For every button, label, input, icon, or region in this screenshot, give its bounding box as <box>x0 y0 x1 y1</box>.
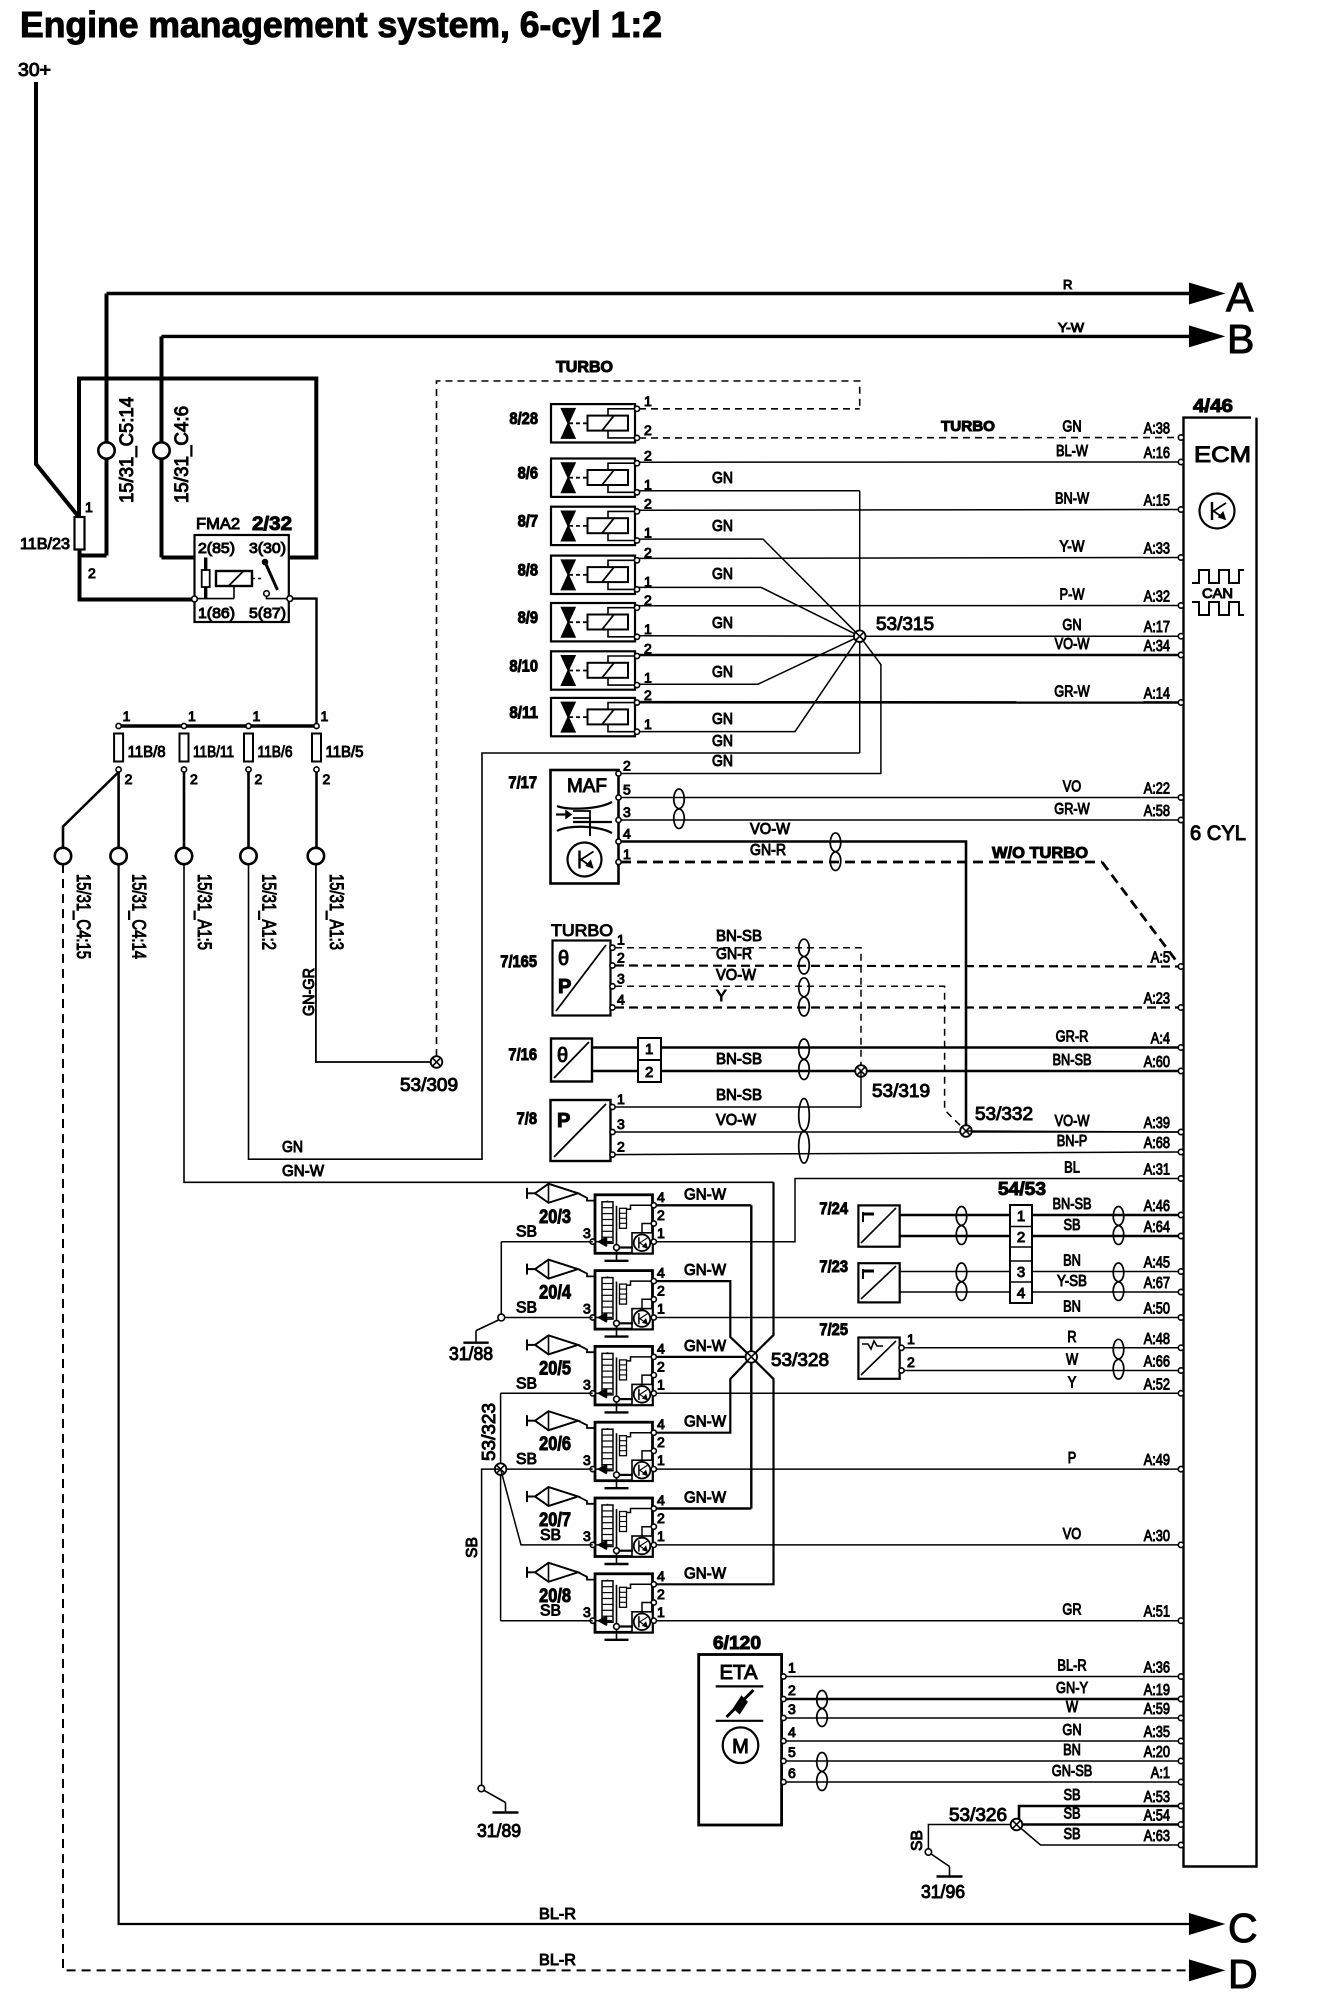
svg-text:D: D <box>1228 1951 1258 1997</box>
svg-text:A:45: A:45 <box>1144 1255 1170 1272</box>
wire SB node 53/326 to ECM A:63 <box>1017 1825 1182 1846</box>
svg-text:1: 1 <box>657 1452 665 1468</box>
svg-text:53/328: 53/328 <box>771 1350 829 1370</box>
svg-text:SB: SB <box>1063 1787 1080 1804</box>
sensor 7/25 knock <box>858 1338 899 1379</box>
wire injector 8/11 pin 2 GR-W to ECM A:14 <box>639 701 1181 704</box>
svg-text:W/O TURBO: W/O TURBO <box>992 845 1088 862</box>
svg-text:20/3: 20/3 <box>539 1207 571 1228</box>
wire 54/53 pin 3 BN to ECM A:45 <box>1032 1271 1181 1273</box>
svg-text:3: 3 <box>788 1701 796 1717</box>
svg-text:TURBO: TURBO <box>941 418 995 435</box>
svg-text:3: 3 <box>583 1376 591 1392</box>
twisted pair ETA 2/3 <box>817 1691 828 1727</box>
connector 15/31_A1:3 <box>308 848 324 864</box>
injector 8/10 <box>551 651 635 689</box>
svg-text:BL-R: BL-R <box>539 1952 576 1969</box>
pin A:34 of ECM <box>1178 652 1183 657</box>
svg-text:GN: GN <box>712 711 733 728</box>
svg-text:GN: GN <box>712 518 733 535</box>
wire 7/165 pin 4 Y dashed to ECM A:23 <box>615 1006 1181 1008</box>
pin A:39 of ECM <box>1178 1129 1183 1134</box>
svg-text:SB: SB <box>909 1830 926 1851</box>
injector 8/7 <box>551 507 635 545</box>
svg-text:53/315: 53/315 <box>876 614 934 634</box>
svg-text:2: 2 <box>1017 1229 1025 1246</box>
svg-text:GR-W: GR-W <box>1054 801 1090 818</box>
svg-text:A:14: A:14 <box>1144 686 1170 703</box>
wire 20/8 pin 1 GR to ECM A:51 <box>656 1620 1181 1622</box>
twisted pair 7/23 <box>956 1263 967 1301</box>
svg-text:GN-W: GN-W <box>684 1186 727 1203</box>
wire GN-W feed from 11B/11 <box>184 864 774 1182</box>
svg-text:A:32: A:32 <box>1144 589 1170 606</box>
fuse 11B/8 <box>116 723 121 728</box>
pin A:53 of ECM <box>1178 1803 1183 1808</box>
wire injector 8/28 pin 1 TURBO dashed <box>639 408 860 410</box>
node 53/332 <box>960 1125 972 1137</box>
wire 20/7 pin 1 VO to ECM A:30 <box>656 1544 1181 1546</box>
wire injector 8/9 pin 2 P-W to ECM A:32 <box>639 605 1181 607</box>
svg-text:A: A <box>1226 274 1254 320</box>
svg-text:2: 2 <box>323 771 331 787</box>
wire ETA pin 6 GN-SB to ECM A:1 <box>786 1781 1181 1783</box>
pin A:16 of ECM <box>1178 459 1183 464</box>
twisted pair A:46/A:64 <box>1113 1207 1124 1245</box>
svg-text:11B/5: 11B/5 <box>326 744 364 761</box>
pins of coil 20/4 <box>651 1279 656 1284</box>
svg-text:7/8: 7/8 <box>517 1109 537 1128</box>
svg-text:11B/23: 11B/23 <box>20 536 70 553</box>
svg-text:1(86): 1(86) <box>198 605 235 622</box>
fuse 11B/23 <box>75 517 85 550</box>
wire 7/16 pin 2 BN-SB to ECM A:60 <box>661 1070 1181 1073</box>
wire SB node 53/323 to ground 31/89 <box>482 1469 501 1785</box>
svg-text:GN-SB: GN-SB <box>1052 1763 1093 1780</box>
wire GN-W 20/8 pin 4 <box>656 1357 774 1584</box>
relay coil <box>216 571 252 586</box>
wire ETA pin 4 GN to ECM A:35 <box>786 1740 1181 1742</box>
injector 8/11 <box>551 698 635 736</box>
svg-text:31/96: 31/96 <box>921 1882 965 1902</box>
wire GN-W 20/3 pin 4 to node 53/328 <box>656 1204 751 1206</box>
pin A:38 of ECM <box>1178 435 1183 440</box>
wire fuse 11B/8 to 15/31_C4:15 <box>63 772 119 848</box>
wire 7/8 pin 2 BN-P to ECM A:68 <box>615 1152 1181 1155</box>
injector 8/6 <box>551 459 635 497</box>
ground 31/96 <box>925 1849 931 1855</box>
svg-text:A:22: A:22 <box>1144 781 1170 798</box>
pin A:14 of ECM <box>1178 700 1183 705</box>
pin A:17 of ECM <box>1178 634 1183 639</box>
wire 20/5 pin 1 Y to ECM A:52 <box>656 1392 1181 1394</box>
svg-text:VO: VO <box>1063 1526 1082 1543</box>
ground rail of coil 20/4 <box>614 1320 620 1326</box>
wire SB ECM A:53 to node 53/326 <box>1019 1806 1181 1825</box>
wire injector 8/7 pin 2 BN-W to ECM A:15 <box>639 509 1181 512</box>
svg-text:8/9: 8/9 <box>518 608 538 627</box>
wire node 53/332 to ECM A:39 VO-W <box>966 1131 1181 1132</box>
pin A:30 of ECM <box>1178 1542 1183 1547</box>
ignition coil 20/8 <box>595 1574 653 1633</box>
motor M symbol <box>723 1727 759 1763</box>
svg-text:2: 2 <box>645 1064 653 1081</box>
pins of coil 20/3 <box>651 1203 656 1208</box>
svg-text:31/88: 31/88 <box>449 1344 493 1364</box>
svg-text:1: 1 <box>644 621 652 637</box>
pin A:46 of ECM <box>1178 1212 1183 1217</box>
wire fuse 11B/11 pin 2 <box>183 772 186 848</box>
svg-text:A:51: A:51 <box>1144 1604 1170 1621</box>
svg-text:3: 3 <box>583 1604 591 1620</box>
svg-text:VO-W: VO-W <box>716 1112 757 1129</box>
svg-text:A:4: A:4 <box>1151 1031 1170 1048</box>
wire 7/23 to 54/53 pins 3 4 <box>900 1271 1010 1273</box>
svg-text:GN-R: GN-R <box>750 842 786 859</box>
wire 54/53 pin 2 SB to ECM A:64 <box>1032 1235 1181 1238</box>
wire SB bus 20/3-20/4 to ground 31/88 <box>500 1242 502 1318</box>
twisted pair 7/8 <box>799 1099 810 1164</box>
spark plug of coil 20/3 <box>526 1188 528 1199</box>
pin A:67 of ECM <box>1178 1289 1183 1294</box>
svg-text:11B/8: 11B/8 <box>128 744 166 761</box>
svg-text:A:17: A:17 <box>1144 619 1170 636</box>
transistor symbol ECM <box>1200 494 1235 529</box>
throttle symbol <box>727 1690 754 1717</box>
svg-text:A:35: A:35 <box>1144 1724 1170 1741</box>
wire fuse 11B/23 to relay pin 1(86) <box>80 550 107 556</box>
svg-text:2: 2 <box>88 565 96 581</box>
node 53/326 <box>1011 1819 1023 1831</box>
svg-text:GN-W: GN-W <box>684 1490 727 1507</box>
svg-text:GN-R: GN-R <box>716 946 752 963</box>
svg-text:ECM: ECM <box>1194 442 1251 467</box>
wire fuse bus <box>119 724 317 727</box>
svg-text:11B/6: 11B/6 <box>258 744 293 761</box>
svg-text:4: 4 <box>1017 1285 1025 1302</box>
svg-text:A:38: A:38 <box>1144 421 1170 438</box>
svg-text:1: 1 <box>907 1331 915 1347</box>
svg-text:BN-P: BN-P <box>1057 1133 1088 1150</box>
svg-text:BN: BN <box>1063 1253 1081 1270</box>
svg-text:2(85): 2(85) <box>198 540 235 557</box>
pin A:66 of ECM <box>1178 1368 1183 1373</box>
svg-text:4: 4 <box>657 1189 665 1205</box>
svg-text:54/53: 54/53 <box>998 1179 1046 1199</box>
ground rail of coil 20/7 <box>614 1548 620 1554</box>
wire 7/25 pin 2 W to ECM A:66 <box>904 1370 1181 1372</box>
pin A:45 of ECM <box>1178 1269 1183 1274</box>
svg-text:A:59: A:59 <box>1144 1701 1170 1718</box>
svg-text:W: W <box>1066 1352 1079 1369</box>
pin A:36 of ECM <box>1178 1674 1183 1679</box>
svg-text:A:34: A:34 <box>1144 638 1170 655</box>
sensor 7/8 pressure <box>551 1100 611 1161</box>
sensor 7/16 coolant temperature <box>551 1039 592 1082</box>
svg-text:1: 1 <box>617 1091 625 1107</box>
svg-text:8/8: 8/8 <box>518 561 538 580</box>
relay pin 5(87) connector <box>287 596 293 602</box>
svg-text:6/120: 6/120 <box>713 1633 761 1653</box>
connector 15/31_C4:14 <box>110 848 126 864</box>
wire 7/16 to connector pins <box>592 1046 638 1049</box>
svg-text:A:63: A:63 <box>1144 1828 1170 1845</box>
wire injector 8/10 pin 1 GN <box>639 636 860 684</box>
svg-text:A:20: A:20 <box>1144 1744 1170 1761</box>
wire B (Y-W) to connector B <box>162 335 1192 338</box>
svg-text:3: 3 <box>583 1528 591 1544</box>
svg-text:GR-R: GR-R <box>1056 1029 1089 1046</box>
wire SB 20/6 pin 3 <box>501 1468 593 1470</box>
relay resistor <box>204 558 207 571</box>
wire fuse 11B/5 pin 2 <box>315 772 318 848</box>
connector 15/31_C4:15 <box>55 848 71 864</box>
wire GN-GR from 11B/5 to node 53/309 <box>316 864 433 1062</box>
svg-text:SB: SB <box>540 1603 561 1620</box>
svg-text:GN: GN <box>1062 419 1081 436</box>
svg-text:BL-R: BL-R <box>1057 1658 1086 1675</box>
svg-text:GN-W: GN-W <box>684 1565 727 1582</box>
svg-text:A:23: A:23 <box>1144 991 1170 1008</box>
wire 7/165 pin 2 GN-R dashed to ECM A:5 <box>615 966 1181 967</box>
svg-text:2: 2 <box>657 1283 665 1299</box>
pin A:68 of ECM <box>1178 1149 1183 1154</box>
wire 7/25 pin 1 R to ECM A:48 <box>904 1347 1181 1349</box>
svg-text:3(30): 3(30) <box>249 540 286 557</box>
svg-text:3: 3 <box>617 1116 625 1132</box>
svg-text:4: 4 <box>617 992 625 1008</box>
svg-text:BN-SB: BN-SB <box>716 1051 762 1068</box>
pin A:22 of ECM <box>1178 795 1183 800</box>
twisted pair 7/24 <box>956 1207 967 1245</box>
wire ETA pin 3 W to ECM A:59 <box>786 1717 1181 1719</box>
svg-text:A:1: A:1 <box>1151 1765 1170 1782</box>
wire fuse 11B/8 pin 2 <box>117 772 120 848</box>
ground 31/88 <box>476 1320 499 1331</box>
svg-text:30+: 30+ <box>18 60 51 80</box>
ignition coil 20/6 <box>595 1422 653 1481</box>
svg-text:6: 6 <box>788 1765 796 1781</box>
wire GN-W 20/5 pin 4 to node <box>656 1356 751 1358</box>
svg-text:BN: BN <box>1063 1742 1081 1759</box>
CAN symbol ECM <box>1192 570 1244 583</box>
svg-text:7/16: 7/16 <box>508 1045 537 1064</box>
pins of coil 20/7 <box>651 1506 656 1511</box>
svg-text:3: 3 <box>623 804 631 820</box>
svg-text:31/89: 31/89 <box>477 1821 521 1841</box>
svg-text:2/32: 2/32 <box>252 514 292 535</box>
svg-text:53/309: 53/309 <box>400 1075 458 1095</box>
svg-text:A:53: A:53 <box>1144 1789 1170 1806</box>
svg-text:53/323: 53/323 <box>479 1403 499 1461</box>
svg-text:8/28: 8/28 <box>509 409 538 428</box>
wire 7/8 pin 1 BN-SB to node 53/319 <box>615 1106 861 1108</box>
pin A:19 of ECM <box>1178 1696 1183 1701</box>
wire GN feed from 11B/6 <box>249 753 860 1159</box>
twisted pair 7/16 <box>799 1039 810 1080</box>
svg-text:2: 2 <box>657 1358 665 1374</box>
relay pin 1(86) connector <box>192 596 198 602</box>
svg-text:θ: θ <box>558 948 569 970</box>
wire 20/3 pin 1 BL to ECM A:31 <box>656 1179 1181 1242</box>
spark plug of coil 20/4 <box>526 1264 528 1275</box>
wire 54/53 pin 4 Y-SB to ECM A:67 <box>1032 1291 1181 1293</box>
fuse 11B/5 <box>314 723 319 728</box>
ignition coil 20/5 <box>595 1346 653 1405</box>
svg-text:GN: GN <box>282 1139 303 1156</box>
spark plug of coil 20/6 <box>526 1415 528 1426</box>
svg-text:GN: GN <box>712 470 733 487</box>
svg-text:BN-SB: BN-SB <box>716 1087 762 1104</box>
wire GN node to ECM A:17 <box>865 635 1181 637</box>
svg-text:SB: SB <box>1063 1806 1080 1823</box>
svg-text:A:46: A:46 <box>1144 1198 1170 1215</box>
wire SB node 53/326 to ground 31/96 <box>928 1825 1016 1850</box>
svg-text:VO-W: VO-W <box>716 967 757 984</box>
svg-text:2: 2 <box>657 1207 665 1223</box>
svg-text:2: 2 <box>644 496 652 512</box>
svg-text:A:67: A:67 <box>1144 1275 1170 1292</box>
svg-text:2: 2 <box>623 758 631 774</box>
wire 7/8 pin 3 VO-W to ECM A:39 <box>615 1131 1181 1133</box>
sensor 7/24 camshaft <box>858 1205 899 1246</box>
pins of coil 20/6 <box>651 1430 656 1435</box>
ignition coil 20/7 <box>595 1498 653 1557</box>
svg-text:GN: GN <box>712 615 733 632</box>
svg-text:1: 1 <box>657 1528 665 1544</box>
wire MAF pin 5 VO to ECM A:22 <box>621 797 1181 799</box>
pin A:58 of ECM <box>1178 817 1183 822</box>
svg-text:GR-W: GR-W <box>1054 684 1090 701</box>
node 53/323 <box>495 1463 507 1475</box>
wire 30+ feed <box>36 82 78 516</box>
svg-text:A:48: A:48 <box>1144 1331 1170 1348</box>
pin A:60 of ECM <box>1178 1068 1183 1073</box>
pin A:49 of ECM <box>1178 1466 1183 1471</box>
svg-text:3: 3 <box>583 1452 591 1468</box>
wire injector 8/11 pin 1 GN <box>639 636 860 731</box>
pin A:48 of ECM <box>1178 1345 1183 1350</box>
wire injector 8/28 pin 2 GN to ECM A:38 (dashed) <box>639 437 1181 440</box>
wire node 53/319 to 7/8 pin 1 <box>860 1071 862 1107</box>
svg-text:1: 1 <box>657 1225 665 1241</box>
ground rail of coil 20/8 <box>614 1624 620 1630</box>
svg-text:7/165: 7/165 <box>500 952 537 971</box>
svg-text:P-W: P-W <box>1060 587 1086 604</box>
wire SB 20/7 pin 3 <box>501 1469 593 1545</box>
svg-text:BN-SB: BN-SB <box>716 928 762 945</box>
wire GN-W 20/4 pin 4 <box>656 1281 751 1357</box>
twisted pair 7/25 <box>1113 1339 1124 1379</box>
svg-text:4: 4 <box>623 826 631 842</box>
wire GN-W feed to node 53/328 <box>751 1182 773 1357</box>
wire 54/53 pin 1 BN-SB to ECM A:46 <box>1032 1214 1181 1217</box>
wire injector 8/8 pin 2 Y-W to ECM A:33 <box>639 557 1181 560</box>
svg-text:TURBO: TURBO <box>556 359 613 376</box>
wire ETA pin 1 BL-R to ECM A:36 <box>786 1676 1181 1678</box>
wire ETA pin 5 BN to ECM A:20 <box>786 1760 1181 1762</box>
svg-text:53/326: 53/326 <box>949 1805 1007 1825</box>
wire GN-W 20/7 pin 4 <box>656 1507 751 1509</box>
connector 7/16 pins 1 2 <box>638 1038 661 1082</box>
svg-text:BL: BL <box>1064 1160 1080 1177</box>
pin A:51 of ECM <box>1178 1618 1183 1623</box>
pin A:64 of ECM <box>1178 1233 1183 1238</box>
svg-text:GN: GN <box>1062 617 1081 634</box>
connector 15/31_C5:14 <box>105 294 109 556</box>
svg-text:1: 1 <box>644 716 652 732</box>
svg-text:15/31_C4:6: 15/31_C4:6 <box>172 406 193 503</box>
pin A:33 of ECM <box>1178 555 1183 560</box>
wire BL-R from 15/31_C4:14 to connector C <box>119 864 1191 1924</box>
svg-text:GN-W: GN-W <box>684 1338 727 1355</box>
wire SB 20/3 pin 3 <box>501 1241 592 1243</box>
pin A:5 of ECM <box>1178 964 1183 969</box>
svg-text:2: 2 <box>125 771 133 787</box>
svg-text:A:5: A:5 <box>1151 950 1170 967</box>
svg-text:3: 3 <box>583 1225 591 1241</box>
svg-text:θ: θ <box>557 1045 568 1067</box>
svg-text:A:58: A:58 <box>1144 803 1170 820</box>
svg-text:A:66: A:66 <box>1144 1354 1170 1371</box>
svg-text:GN-Y: GN-Y <box>1056 1680 1088 1697</box>
pin A:32 of ECM <box>1178 603 1183 608</box>
svg-text:W: W <box>1066 1699 1079 1716</box>
svg-text:M: M <box>732 1736 749 1758</box>
wire power bus box <box>79 379 316 558</box>
svg-text:20/5: 20/5 <box>539 1358 571 1379</box>
svg-text:20/6: 20/6 <box>539 1434 571 1455</box>
pin A:63 of ECM <box>1178 1842 1183 1847</box>
svg-text:53/332: 53/332 <box>975 1104 1033 1124</box>
wire injector 8/6 pin 2 BL-W to ECM A:16 <box>639 461 1181 463</box>
wire 7/165 pin 1 BN-SB dashed to node 53/319 <box>615 948 861 1065</box>
svg-text:GN-W: GN-W <box>684 1262 727 1279</box>
pin A:50 of ECM <box>1178 1315 1183 1320</box>
svg-text:1: 1 <box>123 708 131 724</box>
svg-text:GN: GN <box>712 733 733 750</box>
svg-text:5: 5 <box>788 1744 796 1760</box>
wire A (R) to connector A <box>107 292 1192 295</box>
injector 8/28 <box>551 404 635 442</box>
wire relay 5(87) to fuse bus <box>293 599 317 726</box>
wire 7/165 pin 3 VO-W dashed to node 53/332 <box>615 986 966 1131</box>
fuse 11B/6 <box>246 723 251 728</box>
pin A:52 of ECM <box>1178 1391 1183 1396</box>
svg-text:1: 1 <box>657 1376 665 1392</box>
node 53/315 <box>854 630 866 642</box>
wire 15/31_C4:6 to relay coil <box>162 558 235 572</box>
svg-text:A:36: A:36 <box>1144 1660 1170 1677</box>
wire SB 20/4 pin 3 <box>501 1317 592 1319</box>
svg-text:4: 4 <box>657 1568 665 1584</box>
relay switch <box>262 559 268 565</box>
pins of coil 20/8 <box>651 1582 656 1587</box>
svg-text:A:30: A:30 <box>1144 1528 1170 1545</box>
svg-text:Y: Y <box>716 988 727 1005</box>
svg-text:8/7: 8/7 <box>518 512 538 531</box>
wire MAF pin 4 VO-W to node 53/332 <box>621 842 966 1126</box>
svg-text:15/31_A1:3: 15/31_A1:3 <box>325 874 346 950</box>
svg-text:A:33: A:33 <box>1144 541 1170 558</box>
svg-text:1: 1 <box>644 525 652 541</box>
spark plug of coil 20/7 <box>526 1491 528 1502</box>
wire injector 8/9 pin 1 GN to node <box>639 635 860 637</box>
svg-text:7/25: 7/25 <box>819 1320 848 1339</box>
svg-text:11B/11: 11B/11 <box>193 744 234 761</box>
svg-text:2: 2 <box>907 1354 915 1370</box>
svg-text:R: R <box>1067 1329 1076 1346</box>
